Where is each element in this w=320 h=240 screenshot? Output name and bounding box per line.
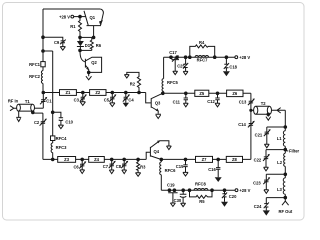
svg-text:Z8: Z8 (232, 157, 238, 162)
ground under C18 (223, 71, 230, 76)
svg-text:C2: C2 (34, 120, 40, 125)
resistor R2 (127, 72, 141, 92)
svg-text:C1: C1 (46, 98, 52, 103)
svg-text:R4: R4 (199, 40, 205, 45)
node RF Out (266, 196, 286, 199)
svg-text:C24: C24 (254, 204, 262, 209)
ground under T2 (266, 113, 271, 120)
svg-text:L3: L3 (277, 187, 283, 192)
ground under Q3 emitter (155, 114, 161, 118)
network Z1 (60, 90, 77, 96)
svg-text:C15: C15 (176, 164, 184, 169)
node C6 (81, 158, 84, 161)
choke RFC6 (160, 159, 176, 190)
svg-text:C3: C3 (74, 98, 80, 103)
svg-text:C30: C30 (174, 198, 182, 203)
node RFC3 bottom (51, 158, 54, 161)
node C8 (123, 158, 126, 161)
ground under C3 (80, 102, 85, 106)
choke RFC3 (51, 143, 67, 153)
ground under T1 (16, 111, 21, 121)
inductor L3 (277, 178, 285, 194)
network Z7 (196, 156, 213, 162)
wire filter column (284, 110, 286, 197)
svg-text:Z7: Z7 (202, 157, 208, 162)
network Z8 (226, 156, 242, 162)
svg-text:+28 V: +28 V (239, 55, 250, 60)
ground under C7 (109, 170, 114, 174)
ground under C5 (110, 103, 115, 107)
node C17 (170, 56, 179, 59)
choke RFC8 (194, 181, 208, 190)
capacitor C23 (253, 174, 270, 190)
ground under C15 (183, 172, 188, 176)
node C20 (223, 189, 226, 192)
node RFC8 right (211, 189, 214, 192)
network Z2 (90, 90, 106, 96)
svg-text:R2: R2 (130, 81, 136, 86)
ground under C24 (263, 210, 270, 215)
capacitor C10 (53, 112, 74, 125)
svg-text:R5: R5 (199, 199, 205, 204)
ground under C25 (183, 71, 188, 74)
network Z6 (227, 90, 243, 97)
node D1/R6 top (79, 36, 95, 39)
resistor R6 (90, 37, 101, 50)
node RFC8 left (188, 189, 191, 192)
ground under C20 (221, 202, 228, 207)
svg-text:Q2: Q2 (91, 60, 97, 65)
svg-text:Z6: Z6 (232, 91, 238, 96)
choke RFC5 (162, 57, 178, 93)
diode D1 (77, 37, 91, 50)
capacitor C25 (177, 57, 188, 71)
svg-text:RFC4: RFC4 (56, 136, 68, 141)
svg-text:C10: C10 (65, 120, 73, 125)
node bias jog (42, 50, 53, 53)
svg-text:C6: C6 (73, 164, 79, 169)
svg-text:T2: T2 (261, 101, 267, 106)
svg-text:+28 V: +28 V (59, 14, 70, 19)
ground under C9 (60, 47, 65, 51)
svg-text:Z2: Z2 (95, 90, 101, 95)
ground under C22 (264, 167, 269, 171)
transistor Q3 (146, 93, 163, 114)
svg-text:C23: C23 (253, 181, 261, 186)
node D1/R6 bottom (79, 49, 92, 52)
ground under C4 (123, 103, 129, 107)
svg-text:RFC3: RFC3 (56, 145, 68, 150)
svg-text:RFC1: RFC1 (29, 62, 41, 67)
ground under C8 (122, 170, 127, 174)
svg-text:C9: C9 (54, 40, 60, 45)
inductor L1 (277, 131, 286, 146)
ground under C30 (181, 203, 186, 206)
node C21 (267, 126, 287, 129)
wire left bias bus (42, 9, 44, 93)
capacitor C14 (238, 110, 255, 159)
inductor L2 (277, 153, 285, 166)
ground under C11 (183, 103, 188, 107)
svg-text:C7: C7 (103, 164, 109, 169)
ground under C19 (170, 203, 175, 206)
node C25 (184, 56, 187, 59)
capacitor C22 (254, 150, 270, 168)
wire +28V upper feed (164, 56, 235, 58)
node C18 (225, 56, 228, 59)
capacitor C19 (167, 183, 178, 203)
transistor Q1 (84, 9, 103, 37)
svg-text:C22: C22 (254, 158, 262, 163)
svg-text:C25: C25 (177, 63, 185, 68)
capacitor C5 (104, 93, 117, 103)
svg-text:RF In: RF In (8, 98, 19, 103)
svg-text:RFC7: RFC7 (197, 58, 209, 63)
node Q3 collector (162, 92, 165, 95)
capacitor C9 (43, 37, 66, 46)
node C9 tap (42, 36, 45, 39)
svg-text:C12: C12 (207, 99, 215, 104)
svg-text:C17: C17 (169, 50, 177, 55)
choke RFC4 (51, 136, 68, 141)
svg-text:Z1: Z1 (65, 90, 71, 95)
ground under C10 (58, 125, 63, 129)
svg-text:C16: C16 (208, 167, 216, 172)
svg-text:R1: R1 (70, 24, 76, 29)
capacitor C7 (103, 159, 116, 170)
svg-text:R6: R6 (96, 43, 102, 48)
node T2 input (250, 109, 254, 111)
ground under C17 (173, 71, 178, 74)
wire top bias rail (43, 8, 100, 10)
svg-text:C5: C5 (104, 97, 110, 102)
node R2 (138, 91, 141, 94)
capacitor C16 (208, 159, 220, 177)
resistor R5 (190, 190, 213, 204)
ground under C16 (215, 177, 222, 182)
svg-text:RFC6: RFC6 (165, 168, 177, 173)
ground under Q2 (86, 72, 92, 79)
capacitor C11 (173, 93, 188, 104)
wire lower output row (161, 158, 251, 160)
svg-text:RFC2: RFC2 (29, 74, 41, 79)
RF In terminal (8, 98, 19, 110)
choke RFC1 (29, 62, 45, 67)
+28 V terminal (top) (59, 14, 74, 19)
wire upper output row (163, 92, 251, 94)
svg-text:L2: L2 (277, 160, 283, 165)
node C3 (82, 91, 85, 94)
wire +28V to Q1 collector (74, 16, 86, 18)
transistor Q2 (80, 50, 102, 73)
svg-text:Filter: Filter (289, 149, 300, 154)
capacitor C6 (73, 159, 86, 170)
wire T1 output (34, 107, 43, 109)
capacitor C15 (176, 159, 188, 172)
svg-text:C8: C8 (116, 164, 122, 169)
resistor R4 (190, 40, 215, 57)
capacitor C17 (169, 50, 179, 71)
svg-text:Q4: Q4 (154, 149, 160, 154)
capacitor C12 (207, 93, 220, 104)
svg-text:Q3: Q3 (155, 100, 161, 105)
svg-text:+28 V: +28 V (239, 188, 250, 193)
ground under C6 (80, 170, 85, 174)
node R3 (137, 158, 140, 161)
svg-text:C19: C19 (167, 183, 175, 188)
capacitor C8 (116, 159, 129, 170)
node C12 (216, 92, 219, 95)
svg-text:D1: D1 (85, 43, 91, 48)
svg-text:L1: L1 (277, 136, 283, 141)
capacitor C13 (239, 93, 255, 110)
capacitor C20 (222, 190, 237, 202)
svg-text:RF Out: RF Out (278, 209, 292, 214)
node C7 (110, 158, 113, 161)
resistor R1 (70, 17, 81, 38)
svg-text:Q1: Q1 (90, 15, 96, 20)
node R1 top (79, 15, 82, 18)
node Q4 collector (160, 158, 163, 161)
node T1 secondary tap (32, 111, 43, 114)
capacitor C3 (74, 93, 87, 103)
capacitor C30 (174, 190, 187, 203)
node C5 (111, 91, 114, 94)
ground under C23 (264, 190, 269, 194)
svg-text:C14: C14 (238, 122, 246, 127)
transformer T1 (17, 99, 35, 111)
+28 V terminal (upper right) (235, 55, 250, 60)
node C15 (184, 158, 187, 161)
svg-text:Z5: Z5 (199, 91, 205, 96)
capacitor C21 (255, 127, 271, 144)
svg-text:Z3: Z3 (64, 157, 70, 162)
node C30 (182, 189, 185, 192)
wire lower bias line (161, 189, 235, 191)
svg-text:C18: C18 (229, 64, 237, 69)
RF Out terminal (278, 198, 292, 215)
wire upper amplifier row (43, 92, 145, 94)
choke RFC7 (189, 55, 217, 62)
network Z3 (58, 157, 76, 163)
node C4 (125, 91, 128, 94)
transformer T2 (254, 101, 272, 114)
capacitor C24 (254, 198, 269, 211)
node input row (42, 91, 45, 94)
capacitor C18 (224, 57, 238, 71)
ground under C12 (215, 103, 220, 107)
network Z5 (195, 90, 209, 96)
wire lower bias feed vertical (52, 51, 54, 159)
svg-text:C20: C20 (229, 194, 237, 199)
ground at Q4 emitter (167, 146, 172, 150)
node C23 (266, 173, 286, 176)
svg-text:Z4: Z4 (94, 157, 100, 162)
svg-text:C21: C21 (255, 132, 263, 137)
svg-text:C11: C11 (173, 100, 181, 105)
svg-text:RFC5: RFC5 (167, 80, 179, 85)
node C10 tap (51, 111, 54, 114)
wire lower amplifier row (43, 158, 146, 160)
ground at R2 (124, 75, 129, 78)
svg-text:C4: C4 (128, 97, 134, 102)
network Z4 (89, 157, 105, 163)
ground under R3 (136, 173, 141, 177)
wire T2 output with arrow (272, 108, 286, 113)
svg-text:T1: T1 (25, 99, 31, 104)
capacitor C1 (40, 93, 52, 109)
Filter label (287, 149, 300, 154)
svg-text:C13: C13 (239, 100, 247, 105)
transistor Q4 (146, 141, 169, 160)
node C22 (266, 148, 287, 151)
ground under C21 (264, 144, 269, 148)
node C11 (185, 92, 188, 95)
node C19 (168, 189, 176, 192)
svg-text:RFC8: RFC8 (195, 181, 207, 186)
resistor R3 (137, 159, 147, 172)
choke RFC2 (29, 71, 43, 84)
svg-text:R3: R3 (140, 164, 146, 169)
+28 V terminal (lower right) (235, 188, 250, 193)
node C16 (217, 158, 220, 161)
capacitor C4 (123, 93, 135, 103)
capacitor C2 (34, 113, 47, 159)
